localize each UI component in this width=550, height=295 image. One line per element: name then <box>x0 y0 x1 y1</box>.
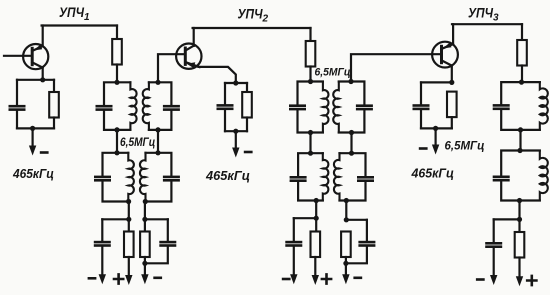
wire node to resistor stage3 <box>518 219 520 232</box>
wire tank2 down to node stage3 <box>518 201 520 220</box>
node T1 secondary top <box>155 80 160 85</box>
wire top rail stage3 <box>452 23 522 25</box>
node RC3 top <box>449 80 454 85</box>
resistor R3 <box>517 40 527 66</box>
T1 secondary tank loop <box>149 82 172 130</box>
capacitor C1 <box>9 105 26 111</box>
wire node to resistor stage1 <box>128 219 130 231</box>
wire R2 to T3 <box>309 67 311 82</box>
node T1 primary bottom <box>114 127 119 132</box>
svg-text:УПЧ3: УПЧ3 <box>468 4 499 23</box>
minus sign bottom stage3 <box>476 278 485 281</box>
supply arrow resistor stage2 <box>314 257 316 277</box>
wire emitter Q2 to RC2 <box>199 67 236 83</box>
svg-text:6,5МГц: 6,5МГц <box>445 139 485 152</box>
wire cap branch down stage3 <box>493 219 495 242</box>
plus sign bottom stage2 <box>322 274 331 283</box>
resistor R2e <box>242 92 252 118</box>
node T1 secondary bottom <box>155 127 160 132</box>
inductor T4 secondary <box>334 153 340 200</box>
minus sign bottom right stage2 <box>353 277 362 280</box>
svg-text:6,5МГц: 6,5МГц <box>315 67 351 79</box>
inductor T3 secondary <box>333 82 339 133</box>
node T3 secondary bottom <box>349 130 354 135</box>
wire right cap upper stage1 <box>167 219 169 241</box>
plus sign bottom stage3 <box>527 276 536 285</box>
wire RC3 right branch lower <box>451 117 453 128</box>
T4 secondary tank loop <box>340 153 366 200</box>
capacitor T4 secondary <box>357 176 374 182</box>
inductor T1 primary <box>130 82 136 130</box>
node RC2 bottom <box>233 129 238 134</box>
node T3 secondary top <box>348 79 353 84</box>
node RC2 top <box>233 80 238 85</box>
node T4 primary top <box>308 151 313 156</box>
capacitor decoupling stage3 <box>485 242 502 248</box>
wire emitter Q3 up to top rail <box>452 24 454 44</box>
supply arrow RC2 <box>235 131 237 149</box>
wire R1 to T1 <box>116 65 118 83</box>
wire node to cap branch left stage2 <box>294 217 316 219</box>
resistor decoupling stage2 <box>311 232 321 258</box>
resistor decoupling stage3 <box>515 232 525 258</box>
supply arrow resistor stage1 <box>128 257 130 277</box>
wire cap branch down stage2 <box>293 218 295 241</box>
wire top rail to R3 <box>521 24 523 40</box>
capacitor T1 primary <box>96 105 113 111</box>
transistor Q2 <box>176 44 201 69</box>
wire RC3 top <box>421 81 452 83</box>
capacitor T2 secondary <box>163 176 180 182</box>
capacitor T1 secondary <box>163 105 180 111</box>
wire RC2 left branch lower <box>224 110 226 131</box>
node right net stage1 <box>142 217 147 222</box>
wire top rail stage2 <box>193 27 311 29</box>
T3 primary tank loop <box>298 82 323 133</box>
wire RC2 right branch upper <box>246 83 248 92</box>
node tank2 bottom stage3 <box>517 198 522 203</box>
wire T1 secondary top to base Q2 <box>158 54 185 82</box>
wire RC3 left branch lower <box>420 110 422 128</box>
minus sign bottom left stage1 <box>88 277 97 280</box>
svg-text:465кГц: 465кГц <box>411 166 454 181</box>
resistor R1e <box>49 92 59 118</box>
wire RC3 bottom <box>421 127 452 129</box>
wire right cap lower stage2 <box>346 247 367 263</box>
wire RC2 top <box>225 82 247 84</box>
T2 primary tank loop <box>103 153 129 202</box>
wire RC1 right branch upper <box>53 80 55 92</box>
capacitor T2 primary <box>94 176 111 182</box>
wire R3 to tank1 <box>521 66 523 83</box>
inductor T2 primary <box>128 153 134 202</box>
wire T4 primary down to node <box>315 201 317 219</box>
node T2 secondary bottom <box>143 199 148 204</box>
node collector Q1 / RC1 top <box>40 77 45 82</box>
inductor T2 secondary <box>140 153 146 202</box>
wire cap branch down stage1 <box>101 219 103 241</box>
supply arrow left cap stage1 <box>101 247 103 276</box>
svg-text:465кГц: 465кГц <box>12 166 54 181</box>
capacitor right stage1 <box>159 241 176 247</box>
tank1 loop stage3 <box>501 82 540 130</box>
wire RC2 bottom <box>225 130 247 132</box>
node T2 primary bottom <box>126 199 131 204</box>
wire node to right cap stage1 <box>145 218 168 220</box>
minus sign stage2 emitter <box>244 151 253 154</box>
inductor T1 secondary <box>143 82 149 130</box>
node T4 secondary top <box>349 151 354 156</box>
svg-text:УПЧ1: УПЧ1 <box>59 4 90 23</box>
transistor Q1 <box>23 44 48 69</box>
resistor decoupling stage1 <box>124 232 134 258</box>
T2 secondary tank loop <box>146 153 172 202</box>
wire T4 secondary down to node <box>345 201 347 220</box>
capacitor T3 primary <box>289 104 306 110</box>
node right bottom stage2 <box>343 261 348 266</box>
node RC3 bottom <box>433 126 438 131</box>
wire right cap upper stage2 <box>366 220 368 241</box>
emitter arrow Q1 <box>33 45 42 51</box>
capacitor T3 secondary <box>356 104 373 110</box>
wire RC1 left branch upper <box>16 80 18 105</box>
wire node to cap branch stage3 <box>494 218 520 220</box>
wire RC2 left branch upper <box>224 83 226 104</box>
capacitor tank1 stage3 <box>493 104 510 110</box>
minus sign stage3 emitter <box>419 147 428 150</box>
wire T1 secondary to T2 secondary <box>157 130 159 153</box>
tank2 loop stage3 <box>501 151 540 201</box>
emitter arrow Q2 <box>187 62 196 68</box>
emitter arrow Q3 <box>443 43 452 49</box>
supply arrow right stage2 <box>345 263 347 276</box>
T4 primary tank loop <box>298 153 323 200</box>
wire top rail to R2 <box>309 28 311 41</box>
wire T2 secondary down to node <box>144 202 146 220</box>
node T4 secondary bottom <box>344 198 349 203</box>
minus sign bottom right stage1 <box>153 277 162 280</box>
T3 secondary tank loop <box>339 82 365 133</box>
node T1 primary top <box>114 80 119 85</box>
wire top rail to R1 <box>116 26 118 40</box>
capacitor decoupling left stage1 <box>94 241 111 247</box>
minus sign stage1 emitter <box>40 151 49 154</box>
wire node to right cap stage2 <box>346 219 367 221</box>
wire RC1 top <box>17 79 54 81</box>
supply arrow RC1 (negative rail) <box>31 128 33 146</box>
resistor R2 <box>306 41 316 67</box>
capacitor C2e <box>217 104 234 110</box>
node right net stage2 <box>344 217 349 222</box>
wire T1 primary to T2 primary <box>116 130 118 153</box>
wire node to resistor stage2 <box>315 218 317 231</box>
wire T3 secondary to T4 secondary <box>350 133 352 154</box>
svg-text:6,5МГц: 6,5МГц <box>120 135 155 149</box>
transistor Q3 <box>432 42 458 68</box>
inductor tank1 stage3 <box>540 82 548 130</box>
supply arrow RC3 <box>435 128 437 146</box>
node RC1 bottom <box>30 126 35 131</box>
plus sign bottom stage1 <box>114 274 123 283</box>
supply arrow right stage1 <box>144 263 146 276</box>
capacitor decoupling left stage2 <box>285 241 302 247</box>
node right bottom stage1 <box>142 261 147 266</box>
inductor T3 primary <box>323 82 329 133</box>
supply arrow cap stage3 <box>493 248 495 276</box>
node T2 primary top <box>114 150 119 155</box>
wire T2 primary down to node <box>128 202 130 220</box>
inductor T4 primary <box>323 153 329 200</box>
wire collector Q2 up <box>193 28 195 46</box>
wire tank1 to tank2 stage3 <box>519 130 521 151</box>
node T2 secondary top <box>155 150 160 155</box>
wire input to base Q1 <box>4 55 32 57</box>
wire RC2 right branch lower <box>246 118 248 132</box>
wire T3 secondary top to base Q3 <box>351 54 442 81</box>
capacitor C3e <box>413 104 430 110</box>
wire right cap lower stage1 <box>145 247 168 263</box>
wire RC1 bottom <box>17 127 54 129</box>
capacitor T4 primary <box>290 176 307 182</box>
resistor right stage1 <box>144 219 146 231</box>
minus sign bottom left stage2 <box>282 278 291 281</box>
supply arrow left cap stage2 <box>293 247 295 276</box>
wire emitter Q1 up to top rail <box>42 26 44 47</box>
node T4 primary bottom <box>314 198 319 203</box>
wire RC3 left branch upper <box>420 82 422 104</box>
resistor R3e <box>447 92 457 118</box>
T1 primary tank loop <box>104 82 130 130</box>
wire collector Q1 down <box>42 67 44 79</box>
node tank1 bottom stage3 <box>518 127 523 132</box>
node T3 primary top <box>308 79 313 84</box>
node decoupling left stage1 <box>126 217 131 222</box>
wire collector Q3 down <box>451 65 453 82</box>
wire node to cap branch left stage1 <box>102 218 129 220</box>
node tank2 top stage3 <box>517 148 522 153</box>
resistor R1 <box>112 39 122 65</box>
capacitor right stage2 <box>358 241 375 247</box>
resistor right stage2 <box>341 232 351 258</box>
wire RC1 left branch lower <box>16 111 18 128</box>
supply arrow resistor stage3 <box>518 258 520 279</box>
svg-text:УПЧ2: УПЧ2 <box>238 5 269 24</box>
wire RC1 right branch lower <box>53 118 55 129</box>
svg-text:465кГц: 465кГц <box>205 168 250 183</box>
wire top rail stage1 <box>42 24 117 26</box>
node tank1 top stage3 <box>519 80 524 85</box>
wire T3 primary to T4 primary <box>309 133 311 154</box>
node T3 primary bottom <box>308 130 313 135</box>
inductor tank2 stage3 <box>540 151 548 201</box>
node decoupling stage3 <box>517 217 522 222</box>
node decoupling left stage2 <box>314 216 319 221</box>
capacitor tank2 stage3 <box>493 176 510 182</box>
